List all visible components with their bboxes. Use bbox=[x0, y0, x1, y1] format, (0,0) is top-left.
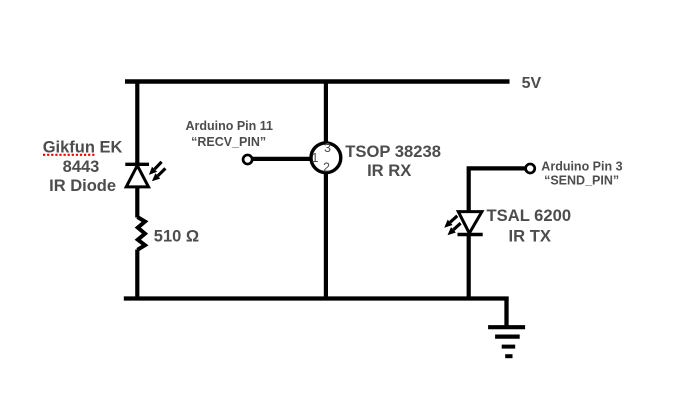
svg-text:3: 3 bbox=[324, 141, 331, 155]
svg-text:IR TX: IR TX bbox=[508, 226, 550, 245]
svg-text:Gikfun EK: Gikfun EK bbox=[43, 139, 123, 157]
svg-text:“RECV_PIN”: “RECV_PIN” bbox=[191, 135, 266, 149]
svg-text:“SEND_PIN”: “SEND_PIN” bbox=[544, 173, 619, 187]
svg-text:IR RX: IR RX bbox=[367, 161, 411, 180]
svg-text:5V: 5V bbox=[522, 75, 542, 92]
svg-text:8443: 8443 bbox=[63, 158, 100, 176]
svg-text:2: 2 bbox=[323, 161, 330, 175]
svg-text:IR Diode: IR Diode bbox=[49, 177, 116, 195]
svg-text:1: 1 bbox=[312, 151, 319, 165]
svg-text:Arduino Pin 11: Arduino Pin 11 bbox=[185, 119, 273, 133]
svg-text:TSOP 38238: TSOP 38238 bbox=[345, 142, 441, 161]
svg-text:Arduino Pin 3: Arduino Pin 3 bbox=[541, 159, 622, 173]
svg-text:510 Ω: 510 Ω bbox=[154, 227, 199, 245]
svg-text:TSAL 6200: TSAL 6200 bbox=[487, 206, 572, 225]
